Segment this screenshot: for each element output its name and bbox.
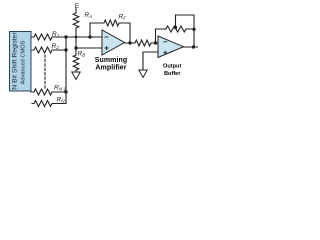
svg-text:RN: RN: [57, 97, 66, 104]
svg-text:R2: R2: [52, 43, 60, 50]
svg-text:Amplifier: Amplifier: [95, 65, 126, 72]
svg-text:N Bit Shift Register: N Bit Shift Register: [12, 32, 19, 90]
svg-text:RN-1: RN-1: [54, 85, 67, 92]
svg-text:E: E: [75, 3, 80, 10]
svg-text:RF: RF: [119, 14, 128, 21]
svg-text:Buffer: Buffer: [164, 71, 181, 77]
svg-text:Summing: Summing: [95, 57, 128, 64]
svg-text:R1: R1: [52, 31, 60, 38]
svg-text:RA: RA: [85, 12, 93, 19]
svg-text:Output: Output: [163, 64, 181, 70]
svg-text:RB: RB: [78, 51, 86, 58]
svg-text:Advanced CMOS: Advanced CMOS: [21, 40, 27, 84]
